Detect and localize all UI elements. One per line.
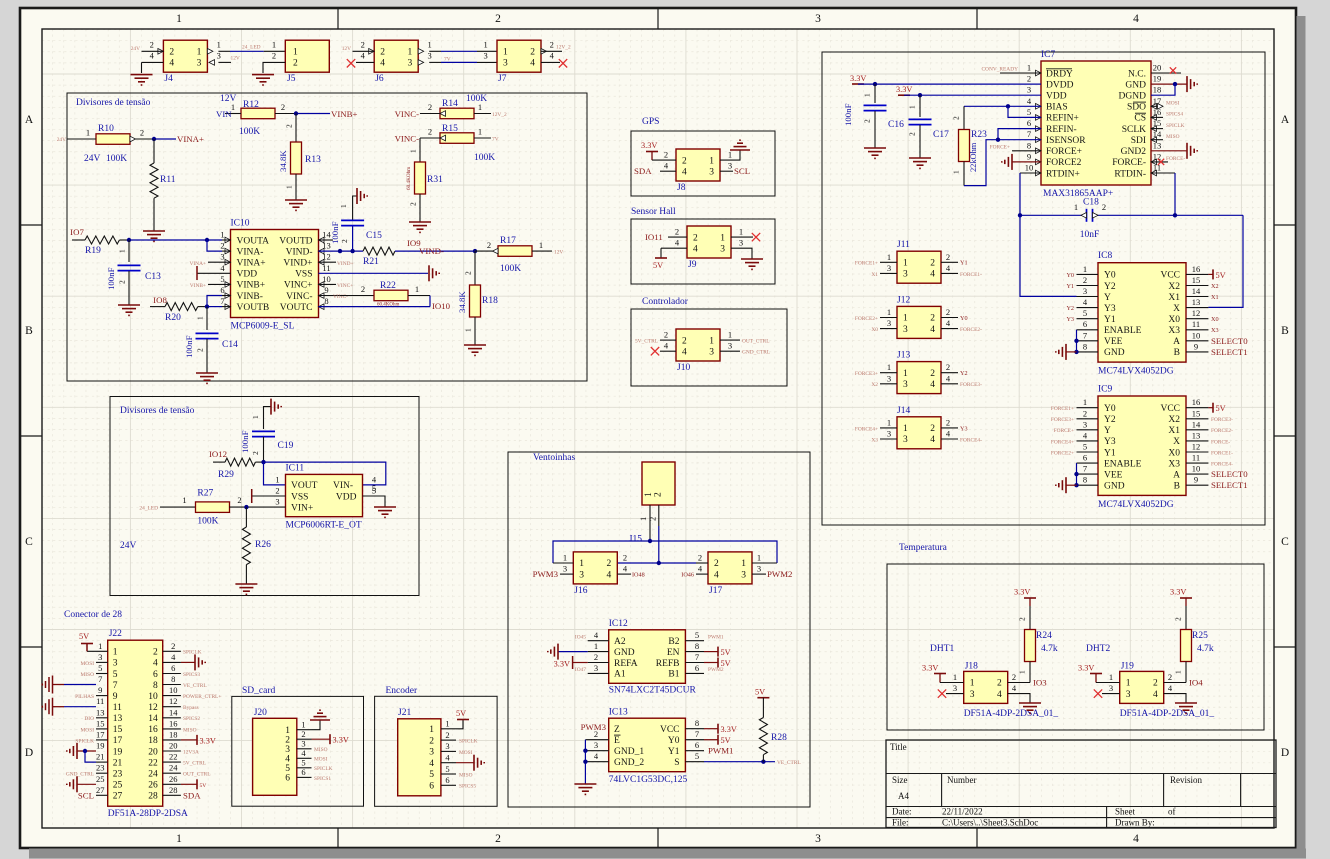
power 3.3V at J19 pin1	[1078, 664, 1120, 683]
ground at IC12 pin1	[548, 644, 588, 660]
svg-text:5: 5	[429, 770, 434, 780]
svg-text:X2: X2	[1168, 282, 1180, 292]
svg-text:1: 1	[503, 48, 508, 58]
wire to C14	[196, 307, 208, 330]
svg-text:1: 1	[196, 316, 205, 320]
svg-text:IC12: IC12	[609, 619, 628, 629]
power rail 3.3V VDD	[896, 85, 1041, 97]
svg-text:3.3V: 3.3V	[554, 660, 570, 669]
svg-text:3: 3	[728, 341, 732, 351]
resistor R15	[428, 124, 495, 163]
svg-text:2: 2	[664, 150, 668, 160]
svg-text:GND_1: GND_1	[614, 747, 644, 757]
svg-text:RTDIN+: RTDIN+	[1046, 169, 1080, 179]
resistor R22	[374, 281, 419, 308]
svg-text:Y1: Y1	[1104, 315, 1116, 325]
svg-text:MCP6006RT-E_OT: MCP6006RT-E_OT	[286, 521, 362, 531]
svg-text:Y: Y	[1104, 293, 1111, 303]
svg-text:B: B	[1174, 348, 1180, 358]
svg-text:X2: X2	[1168, 415, 1180, 425]
net VINC- wire to R14 pin2	[395, 109, 440, 119]
svg-text:X3: X3	[871, 437, 878, 443]
wire J20 pin1 to ground	[312, 720, 321, 730]
net labels J20	[314, 747, 333, 782]
IC IC7 MAX31865AAP+	[1025, 50, 1162, 199]
svg-text:Y0: Y0	[960, 315, 968, 322]
port SELECT0 at IC8	[1211, 336, 1248, 346]
connector J14	[855, 406, 982, 449]
svg-text:ENABLE: ENABLE	[1104, 459, 1142, 469]
svg-text:FORCE1-: FORCE1-	[1211, 450, 1233, 456]
svg-text:8: 8	[1027, 140, 1031, 150]
no connect J18 pin3	[938, 689, 964, 697]
svg-text:5V: 5V	[1216, 271, 1226, 280]
svg-text:1: 1	[887, 307, 891, 317]
svg-text:3: 3	[1109, 683, 1113, 693]
svg-text:9: 9	[324, 285, 328, 295]
net SCL at J8 pin3	[720, 166, 750, 176]
svg-text:1: 1	[478, 102, 482, 112]
svg-text:2: 2	[952, 116, 961, 120]
power 3.3V at R24	[1014, 588, 1036, 630]
svg-text:1: 1	[709, 156, 714, 166]
svg-text:REFIN-: REFIN-	[1046, 125, 1077, 135]
svg-text:23: 23	[96, 763, 105, 773]
svg-text:4: 4	[153, 659, 158, 669]
svg-text:PWM3: PWM3	[581, 722, 607, 732]
connector J20	[253, 708, 312, 795]
svg-text:FORCE4+: FORCE4+	[855, 426, 878, 432]
svg-text:3.3V: 3.3V	[200, 736, 216, 745]
svg-text:2: 2	[863, 119, 872, 123]
svg-text:MOSI: MOSI	[81, 661, 95, 667]
svg-text:Y3: Y3	[1104, 304, 1116, 314]
svg-text:8: 8	[1083, 341, 1087, 351]
power VSS bar IC11 pin2	[252, 489, 286, 503]
svg-text:5V: 5V	[755, 688, 765, 697]
svg-text:R28: R28	[771, 733, 787, 743]
level shifter IC12 SN74LXC2T45DCUR	[588, 619, 704, 696]
svg-text:FORCE2-: FORCE2-	[960, 327, 982, 333]
svg-text:X0: X0	[871, 327, 878, 333]
svg-text:11: 11	[113, 703, 122, 713]
svg-text:IC10: IC10	[231, 219, 250, 229]
svg-text:VE_CTRL: VE_CTRL	[777, 760, 801, 766]
svg-text:4: 4	[930, 270, 935, 280]
svg-text:3: 3	[815, 13, 821, 25]
port IO11 at J9 pin2	[645, 232, 687, 242]
svg-text:J13: J13	[897, 351, 910, 361]
svg-text:J11: J11	[897, 240, 910, 250]
svg-text:VEE: VEE	[1104, 470, 1123, 480]
power 5V at IC13 pin7	[704, 735, 731, 746]
svg-text:1: 1	[182, 495, 186, 505]
ground C17	[909, 158, 931, 168]
svg-text:2: 2	[594, 652, 598, 662]
label DHT2	[1086, 644, 1111, 654]
wire IC10 pin13 to R21	[319, 249, 364, 253]
resistor R23	[952, 116, 988, 174]
port PWM2 at J17 pin3	[767, 569, 792, 579]
svg-text:MISO: MISO	[1166, 134, 1180, 140]
svg-text:2: 2	[1102, 202, 1106, 212]
svg-text:28: 28	[148, 792, 158, 802]
power VDD at IC10 pin4	[197, 266, 231, 280]
svg-text:3: 3	[579, 570, 584, 580]
wire R27 to IC11 pin3	[229, 505, 285, 509]
svg-text:X1: X1	[871, 272, 878, 278]
svg-text:FORCE4-: FORCE4-	[1211, 461, 1233, 467]
svg-text:GND_CTRL: GND_CTRL	[66, 772, 94, 778]
svg-text:C19: C19	[278, 441, 294, 451]
net VINC- wire to R15 pin2	[395, 134, 440, 144]
power 3.3V at R25	[1170, 588, 1192, 630]
svg-text:FORCE-: FORCE-	[1166, 156, 1185, 162]
op-amp IC10 MCP6009-E_SL	[220, 219, 331, 332]
net VIN wire to R12 pin1	[216, 109, 241, 119]
svg-text:2: 2	[698, 553, 702, 563]
svg-text:1: 1	[301, 720, 305, 730]
svg-text:SDI: SDI	[1131, 136, 1146, 146]
region box Encoder	[375, 686, 498, 806]
svg-text:Sensor Hall: Sensor Hall	[631, 207, 676, 217]
svg-text:11: 11	[322, 263, 330, 273]
svg-text:3.3V: 3.3V	[641, 141, 657, 150]
svg-text:2: 2	[445, 730, 449, 740]
svg-text:X1: X1	[1168, 426, 1180, 436]
svg-text:1: 1	[427, 40, 431, 50]
svg-text:FORCE1-: FORCE1-	[960, 272, 982, 278]
svg-text:4: 4	[693, 244, 698, 254]
port IO7	[70, 227, 84, 237]
resistor R12	[231, 100, 285, 137]
svg-text:PILHAS: PILHAS	[75, 694, 94, 700]
svg-text:Bypass: Bypass	[183, 705, 199, 711]
svg-text:2: 2	[171, 641, 175, 651]
svg-text:B2: B2	[668, 637, 679, 647]
svg-text:S: S	[674, 758, 679, 768]
svg-text:1: 1	[118, 249, 127, 253]
svg-text:60.4KOhm: 60.4KOhm	[406, 167, 412, 190]
svg-text:VOUTB: VOUTB	[237, 303, 270, 313]
svg-text:14: 14	[1192, 286, 1201, 296]
svg-text:SCLK: SCLK	[1122, 125, 1146, 135]
svg-text:SPICS3: SPICS3	[183, 672, 200, 678]
svg-text:2: 2	[272, 51, 276, 61]
region box Sensor Hall	[631, 207, 775, 284]
ground R11	[143, 231, 165, 241]
svg-text:26: 26	[169, 774, 178, 784]
svg-text:IO10: IO10	[432, 301, 451, 311]
svg-text:SELECT1: SELECT1	[1211, 480, 1248, 490]
svg-text:12: 12	[169, 696, 178, 706]
svg-text:2: 2	[1083, 275, 1087, 285]
svg-text:R18: R18	[482, 296, 498, 306]
svg-text:1: 1	[176, 13, 182, 25]
svg-text:8: 8	[171, 674, 175, 684]
svg-text:C18: C18	[1083, 198, 1099, 208]
svg-text:J9: J9	[688, 260, 697, 270]
svg-text:1: 1	[220, 230, 224, 240]
svg-text:IO46: IO46	[681, 572, 694, 579]
svg-text:2: 2	[654, 492, 664, 497]
svg-text:2: 2	[275, 486, 279, 496]
svg-text:FORCE3+: FORCE3+	[1051, 417, 1074, 423]
net FORCE+ at IC7 pin8	[990, 145, 1041, 151]
svg-text:3: 3	[1027, 85, 1031, 95]
svg-text:4: 4	[1133, 13, 1139, 25]
svg-text:13: 13	[1153, 140, 1162, 150]
svg-text:J15: J15	[629, 535, 642, 545]
svg-text:1: 1	[709, 336, 714, 346]
svg-text:20: 20	[1153, 63, 1162, 73]
svg-text:R17: R17	[500, 236, 516, 246]
op-amp IC11 MCP6006RT-E_OT	[275, 464, 377, 531]
svg-text:VDD: VDD	[336, 492, 357, 502]
svg-text:6: 6	[171, 663, 175, 673]
svg-text:Controlador: Controlador	[642, 297, 689, 307]
svg-text:1: 1	[741, 559, 746, 569]
svg-text:1: 1	[1083, 397, 1087, 407]
resistor R10	[84, 124, 144, 164]
net CONV_READY at IC7 pin1	[981, 67, 1041, 73]
wire C16 to ground	[874, 111, 876, 148]
wire R28 to VE_CTRL	[762, 755, 764, 762]
ground GND IC7 pin19 pin18	[1151, 76, 1197, 95]
svg-text:3: 3	[1083, 419, 1087, 429]
svg-text:J6: J6	[375, 74, 384, 84]
svg-text:GND_CTRL: GND_CTRL	[742, 350, 770, 356]
power 5V at J22 pin1	[79, 632, 108, 651]
svg-text:2: 2	[1083, 408, 1087, 418]
ground C19 top	[251, 399, 281, 429]
svg-text:GND2: GND2	[1121, 147, 1147, 157]
svg-text:12: 12	[1192, 308, 1201, 318]
svg-text:1: 1	[1126, 679, 1131, 689]
svg-text:1: 1	[563, 553, 567, 563]
resistor R21	[363, 247, 395, 267]
resistor R11	[150, 163, 176, 198]
svg-text:X2: X2	[871, 382, 878, 388]
net PWM1 at IC12 pin5	[708, 635, 724, 641]
svg-text:C:\Users\..\Sheet3.SchDoc: C:\Users\..\Sheet3.SchDoc	[942, 818, 1038, 828]
svg-text:100nF: 100nF	[843, 103, 853, 126]
svg-text:5: 5	[98, 663, 102, 673]
net VINC+ at IC10 pin10	[319, 283, 354, 289]
svg-text:5: 5	[445, 764, 449, 774]
svg-text:C: C	[25, 536, 33, 548]
wire to R18	[464, 251, 476, 285]
svg-text:1: 1	[285, 185, 294, 189]
connector J9	[675, 226, 743, 270]
svg-text:5: 5	[1083, 308, 1087, 318]
net IO45 at IC12 pin4	[575, 635, 586, 641]
svg-text:OUT_CTRL: OUT_CTRL	[742, 339, 770, 345]
svg-text:VOUT: VOUT	[291, 481, 318, 491]
svg-text:J5: J5	[287, 74, 296, 84]
svg-text:VIND-: VIND-	[419, 246, 444, 256]
capacitor C15	[330, 220, 382, 244]
svg-text:VOUTC: VOUTC	[280, 303, 313, 313]
svg-text:B1: B1	[668, 670, 679, 680]
svg-text:SPICS5: SPICS5	[459, 784, 476, 790]
svg-text:R14: R14	[442, 99, 458, 109]
connector J21	[398, 708, 456, 796]
svg-text:2: 2	[301, 729, 305, 739]
svg-text:1: 1	[483, 40, 487, 50]
svg-text:3: 3	[903, 435, 908, 445]
svg-text:3: 3	[594, 663, 598, 673]
svg-text:J19: J19	[1121, 662, 1134, 672]
svg-text:IO45: IO45	[575, 635, 586, 641]
resistor R14	[428, 94, 487, 119]
svg-text:1: 1	[863, 93, 872, 97]
svg-text:FORCE4-: FORCE4-	[960, 437, 982, 443]
svg-text:7: 7	[1083, 464, 1087, 474]
svg-text:3: 3	[953, 683, 957, 693]
svg-text:C14: C14	[222, 340, 238, 350]
svg-text:3: 3	[445, 741, 449, 751]
svg-text:X1: X1	[1211, 294, 1219, 301]
capacitor C17	[908, 119, 950, 140]
svg-text:5: 5	[1027, 107, 1031, 117]
svg-text:IC8: IC8	[1098, 251, 1113, 261]
svg-text:R23: R23	[971, 130, 987, 140]
svg-text:SDA: SDA	[183, 790, 201, 800]
power 3.3V at J22 pin18	[181, 735, 216, 746]
region box Ventoinhas	[508, 452, 810, 807]
svg-text:3: 3	[98, 652, 102, 662]
svg-text:2: 2	[946, 307, 950, 317]
svg-text:14: 14	[148, 714, 158, 724]
wire C13 to ground	[128, 271, 130, 305]
svg-text:4: 4	[997, 690, 1002, 700]
svg-text:5: 5	[695, 751, 699, 761]
ground IC11 VDD	[374, 507, 396, 517]
wire J4 pin4 to ground	[142, 62, 164, 73]
svg-text:IO3: IO3	[1033, 678, 1047, 688]
svg-text:1: 1	[887, 362, 891, 372]
resistor R26	[242, 527, 271, 565]
region label Conector de 28	[64, 610, 122, 620]
svg-text:VOUTA: VOUTA	[237, 236, 270, 246]
port VINB+	[331, 109, 358, 119]
svg-text:A: A	[1173, 470, 1180, 480]
ground J19 pin4	[1175, 703, 1197, 713]
wire R31 to ground	[409, 194, 421, 222]
svg-text:IO12: IO12	[209, 449, 227, 459]
svg-text:16: 16	[1192, 397, 1201, 407]
net 24_LED at R27 pin1	[139, 506, 158, 512]
wire 24_LED J4 pin1 to J5 pin1	[218, 45, 285, 52]
svg-text:REFA: REFA	[614, 659, 638, 669]
svg-text:2: 2	[237, 495, 241, 505]
power 5V at J21 pin1	[456, 709, 469, 729]
svg-text:100K: 100K	[197, 517, 218, 527]
svg-text:5: 5	[695, 630, 699, 640]
connector J8	[664, 149, 732, 193]
svg-text:Size: Size	[892, 775, 908, 785]
net VINA+ at IC10 pin3	[189, 261, 230, 267]
svg-text:2: 2	[623, 553, 627, 563]
svg-text:2: 2	[169, 48, 174, 58]
wire J5 pin2 to ground	[263, 62, 285, 73]
svg-text:12V: 12V	[554, 250, 563, 256]
svg-text:Y0: Y0	[668, 736, 680, 746]
svg-text:27: 27	[113, 792, 123, 802]
svg-text:FORCE+: FORCE+	[1046, 147, 1082, 157]
svg-text:MOSI: MOSI	[314, 757, 328, 763]
svg-text:GND: GND	[1104, 482, 1125, 492]
svg-text:X2: X2	[1211, 283, 1219, 290]
svg-text:15: 15	[96, 718, 105, 728]
svg-text:A4: A4	[898, 791, 909, 801]
svg-text:1: 1	[970, 679, 975, 689]
svg-text:3: 3	[903, 270, 908, 280]
svg-text:VINB+: VINB+	[237, 281, 266, 291]
svg-text:IC13: IC13	[609, 708, 628, 718]
svg-text:R22: R22	[380, 281, 396, 291]
svg-text:3: 3	[113, 659, 118, 669]
svg-text:8: 8	[695, 718, 699, 728]
svg-text:VEE: VEE	[1104, 337, 1123, 347]
svg-text:2: 2	[930, 369, 935, 379]
port SELECT1 at IC8	[1211, 347, 1248, 357]
mux IC9 MC74LVX4052DG	[1077, 385, 1209, 511]
svg-text:100K: 100K	[500, 264, 521, 274]
svg-text:5: 5	[220, 274, 224, 284]
svg-text:6: 6	[1027, 118, 1031, 128]
svg-text:MC74LVX4052DG: MC74LVX4052DG	[1098, 500, 1174, 510]
svg-text:1: 1	[1074, 202, 1078, 212]
svg-text:1: 1	[720, 233, 725, 243]
net 12V label	[220, 94, 237, 104]
wire RTDIN+ down to C18	[1020, 173, 1041, 215]
ground at J22 pin19	[67, 743, 96, 762]
svg-text:4: 4	[169, 59, 174, 69]
svg-text:R19: R19	[85, 246, 101, 256]
svg-text:C17: C17	[933, 130, 949, 140]
svg-text:2: 2	[428, 102, 432, 112]
wire J19 pin4 to ground	[1164, 694, 1186, 703]
svg-text:22kOhm: 22kOhm	[969, 142, 978, 172]
port IO10	[432, 301, 451, 311]
svg-text:2: 2	[648, 517, 658, 521]
power 3.3V at IC13 pin8	[704, 724, 737, 735]
svg-text:VCC: VCC	[1160, 404, 1180, 414]
svg-text:2: 2	[946, 362, 950, 372]
svg-text:10: 10	[1025, 163, 1034, 173]
wire R18 to ground	[464, 317, 476, 345]
svg-text:X3: X3	[1211, 327, 1219, 334]
wire fan bus row	[617, 561, 696, 565]
port IO8	[153, 295, 167, 305]
svg-text:6: 6	[301, 767, 305, 777]
wire R24 to J18	[1029, 662, 1031, 683]
ground R18	[464, 345, 486, 355]
svg-text:2: 2	[664, 330, 668, 340]
net labels IC9 right	[1211, 417, 1233, 467]
wire C18 net	[1018, 213, 1243, 307]
svg-text:24V: 24V	[84, 154, 101, 164]
svg-text:2: 2	[153, 648, 158, 658]
svg-text:3.3V: 3.3V	[922, 664, 938, 673]
connector J17	[696, 552, 777, 596]
svg-text:1: 1	[1018, 670, 1027, 674]
capacitor C16	[843, 103, 904, 130]
power 5V at IC9 VCC	[1208, 403, 1225, 414]
mux IC13 74LVC1G53DC,125	[585, 708, 704, 786]
